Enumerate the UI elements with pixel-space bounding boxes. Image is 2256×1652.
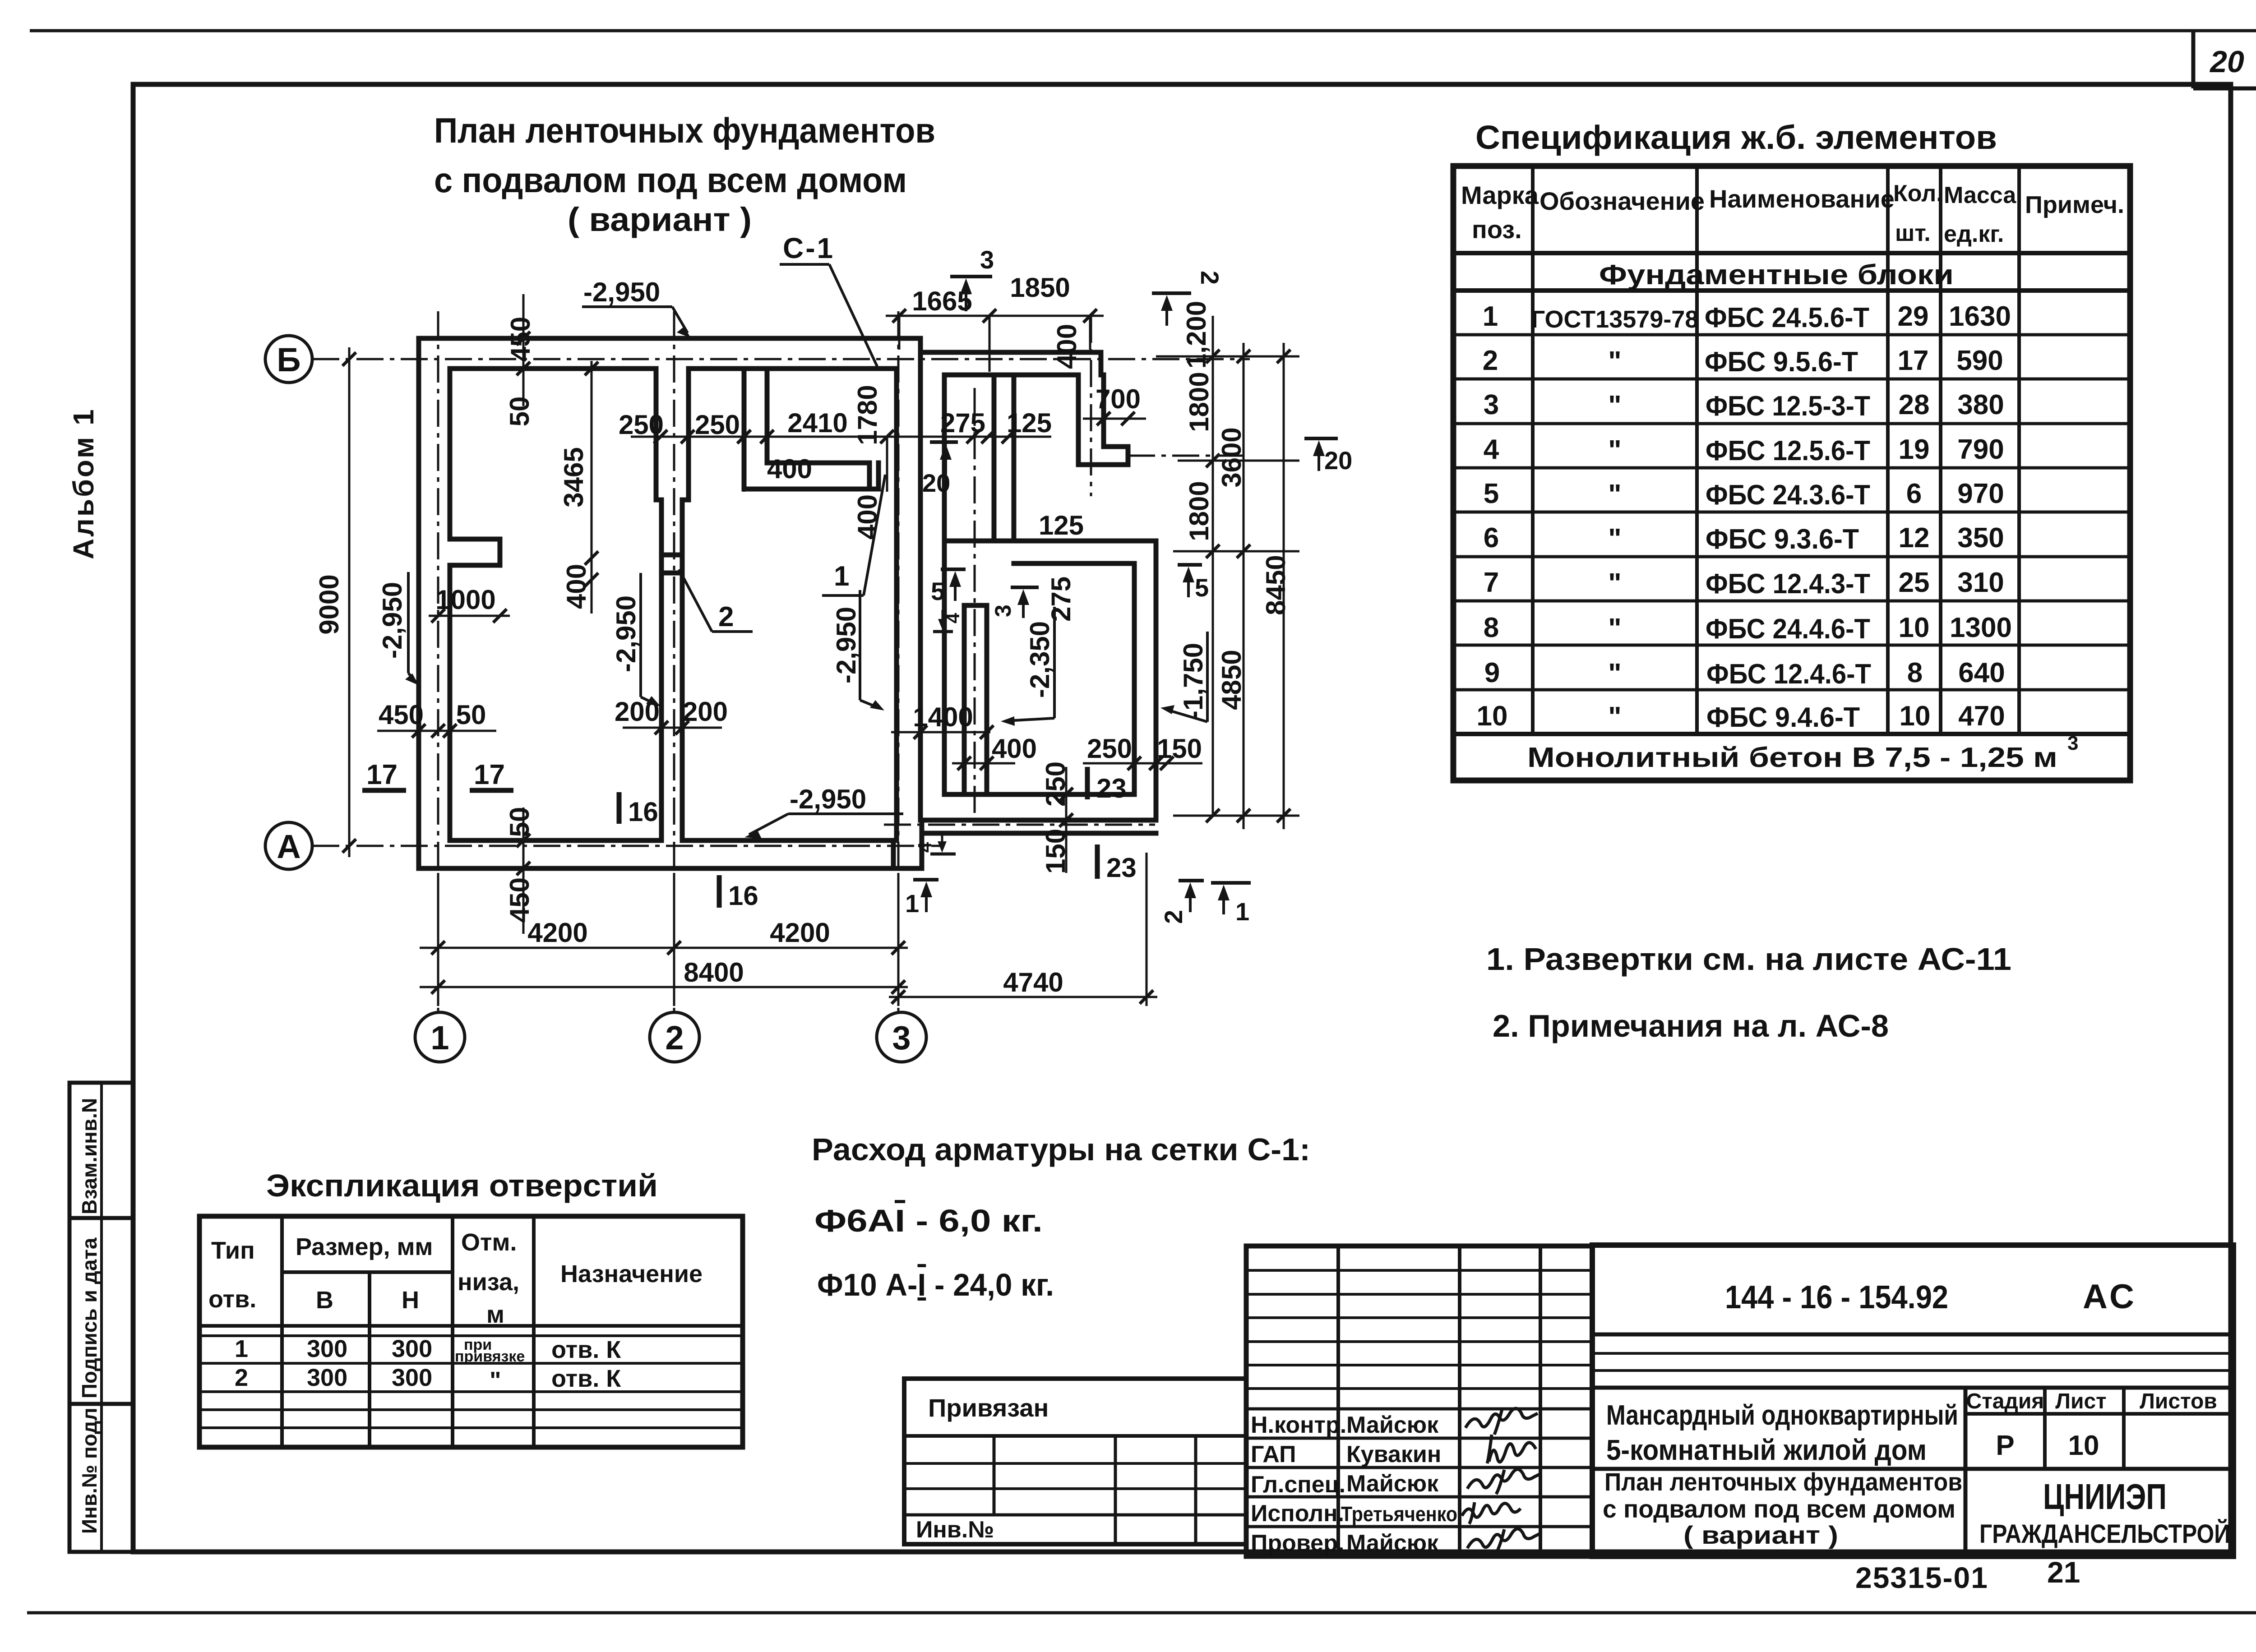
svg-text:29: 29 — [1898, 301, 1929, 332]
svg-text:Альбом 1: Альбом 1 — [67, 407, 100, 559]
svg-text:4850: 4850 — [1216, 650, 1247, 710]
annex partition east face — [1012, 375, 1017, 541]
svg-text:125: 125 — [1039, 510, 1084, 540]
axis circle 2 — [650, 1012, 699, 1062]
svg-text:144 - 16 - 154.92: 144 - 16 - 154.92 — [1725, 1279, 1948, 1315]
svg-text:Провер.: Провер. — [1251, 1530, 1344, 1556]
svg-text:275: 275 — [940, 408, 985, 438]
svg-text:": " — [1608, 346, 1621, 377]
svg-text:50: 50 — [504, 807, 535, 837]
svg-text:ГАП: ГАП — [1251, 1441, 1296, 1467]
dim line 1400 — [891, 731, 990, 734]
svg-text:Примеч.: Примеч. — [2025, 191, 2124, 218]
section mark 4 left small — [933, 610, 953, 632]
annex bottom outer second — [922, 831, 1156, 836]
svg-text:ЦНИИЭП: ЦНИИЭП — [2043, 1477, 2167, 1517]
section mark 2 bottom — [1179, 881, 1204, 912]
wall jog at axis3 — [918, 338, 923, 352]
svg-text:-2,950: -2,950 — [583, 277, 660, 307]
svg-text:23: 23 — [1106, 853, 1137, 883]
svg-text:19: 19 — [1899, 434, 1930, 465]
axis stub — [974, 388, 976, 817]
svg-text:17: 17 — [474, 759, 505, 790]
svg-text:1300: 1300 — [1950, 612, 2012, 643]
stamp row project-number bottom — [1592, 1333, 2233, 1337]
stamp stadia header bottom — [1965, 1412, 2233, 1416]
svg-text:450: 450 — [505, 317, 536, 362]
svg-text:Привязан: Привязан — [928, 1394, 1049, 1422]
svg-text:Р: Р — [1996, 1430, 2014, 1461]
section mark 4 bottom small — [930, 834, 956, 854]
explik col B-H divider — [368, 1272, 371, 1447]
explik razmer subline — [282, 1270, 453, 1274]
svg-text:Марка: Марка — [1461, 181, 1539, 209]
alcove bottom outer — [744, 487, 878, 492]
ticks vertical 250-150 — [1059, 788, 1073, 827]
svg-text:Н.контр.: Н.контр. — [1251, 1412, 1346, 1438]
right stack ext lines — [1156, 355, 1299, 358]
ticks 1000 — [431, 609, 507, 623]
left block inner step — [891, 840, 896, 868]
PLAN — [265, 232, 1352, 1062]
svg-text:1: 1 — [235, 1335, 248, 1362]
svg-text:2: 2 — [1159, 910, 1188, 924]
alcove west wall east face — [765, 369, 770, 463]
wall top outer — [419, 336, 920, 341]
svg-text:Фундаментные блоки: Фундаментные блоки — [1599, 259, 1954, 291]
svg-text:400: 400 — [992, 734, 1037, 764]
svg-text:привязке: привязке — [455, 1348, 525, 1365]
svg-text:ед.кг.: ед.кг. — [1944, 221, 2004, 247]
svg-text:590: 590 — [1956, 345, 2003, 376]
dim line top 1665-1850 — [886, 315, 1104, 317]
svg-text:Инв.№: Инв.№ — [916, 1517, 994, 1543]
svg-text:250: 250 — [1087, 734, 1132, 764]
axis A line — [312, 845, 943, 847]
svg-text:1: 1 — [430, 1019, 449, 1057]
annex middle wall bottom — [1014, 561, 1134, 566]
svg-text:1. Развертки см. на листе АС-1: 1. Развертки см. на листе АС-11 — [1486, 941, 2011, 977]
spec col line 5 — [2017, 166, 2021, 734]
svg-text:2: 2 — [1196, 271, 1224, 285]
dim line 450-50 top-left — [522, 294, 525, 406]
annex east wall east face — [1154, 541, 1159, 820]
wall left inner upper — [448, 369, 453, 539]
svg-text:-2,350: -2,350 — [1025, 621, 1055, 698]
dim line middle horizontal chain — [631, 436, 1051, 438]
L-wall foot end — [1126, 447, 1131, 465]
annex bottom-left jog — [920, 820, 925, 868]
scan top edge line — [30, 29, 2256, 32]
svg-text:ФБС 12.4.3-Т: ФБС 12.4.3-Т — [1706, 568, 1870, 600]
signatures squiggles — [1462, 1407, 1539, 1553]
svg-text:4: 4 — [942, 613, 963, 623]
svg-text:Б: Б — [277, 341, 300, 378]
svg-text:отв.: отв. — [208, 1286, 256, 1313]
svg-text:1: 1 — [905, 889, 919, 918]
pilaster east — [498, 539, 503, 565]
wall middle lower east face — [680, 500, 685, 840]
TITLE-BLOCK — [904, 1245, 2233, 1594]
svg-text:300: 300 — [392, 1364, 432, 1391]
svg-text:3: 3 — [2067, 732, 2078, 754]
explik outer border — [199, 1216, 743, 1447]
svg-text:поз.: поз. — [1472, 215, 1522, 244]
svg-text:4200: 4200 — [527, 918, 587, 948]
svg-text:400: 400 — [1052, 324, 1082, 369]
svg-text:50: 50 — [504, 397, 535, 427]
ticks bottom dims — [431, 941, 905, 955]
svg-text:20: 20 — [1324, 446, 1352, 475]
pilaster top — [450, 537, 500, 542]
annex west wall east face — [942, 375, 947, 794]
dim line 3465-400 — [591, 361, 593, 614]
svg-text:Отм.: Отм. — [461, 1229, 517, 1256]
svg-text:400: 400 — [767, 454, 812, 484]
dim line 250-150 vertical — [1065, 767, 1068, 873]
dim line 700 — [1083, 412, 1146, 425]
section mark 1 bottom-right — [1211, 883, 1251, 914]
svg-text:310: 310 — [1957, 567, 2004, 598]
svg-text:Стадия: Стадия — [1966, 1389, 2044, 1413]
section mark 3 top — [950, 277, 992, 311]
ticks 250-150 — [1128, 757, 1174, 770]
svg-text:25315-01: 25315-01 — [1855, 1561, 1988, 1594]
spec table outer border — [1453, 166, 2130, 780]
svg-text:6: 6 — [1906, 478, 1922, 509]
wall bottom inner west — [450, 838, 661, 843]
svg-text:с подвалом под всем домом: с подвалом под всем домом — [434, 160, 907, 200]
section mark 2 top — [1152, 293, 1191, 326]
svg-text:5-комнатный жилой дом: 5-комнатный жилой дом — [1606, 1434, 1927, 1466]
svg-text:Экспликация отверстий: Экспликация отверстий — [266, 1168, 658, 1203]
svg-text:2: 2 — [235, 1364, 248, 1391]
svg-text:2. Примечания на л. АС-8: 2. Примечания на л. АС-8 — [1493, 1008, 1889, 1043]
section mark 20 right — [1304, 438, 1338, 471]
stub partition west face — [962, 605, 967, 794]
svg-text:12: 12 — [1899, 522, 1930, 554]
axis circle B — [265, 336, 312, 383]
axis circle A — [265, 822, 312, 869]
dim line 400 stub — [952, 762, 1015, 765]
annex bottom inner — [944, 792, 1134, 797]
svg-text:С-1: С-1 — [783, 232, 835, 264]
wall top inner east — [689, 366, 897, 371]
hole 2 top — [661, 553, 682, 558]
svg-text:17: 17 — [366, 759, 398, 790]
svg-text:Инв.№ подл: Инв.№ подл — [78, 1407, 101, 1534]
svg-text:отв. К: отв. К — [551, 1365, 621, 1392]
svg-text:ФБС 9.3.6-Т: ФБС 9.3.6-Т — [1706, 524, 1859, 555]
stub partition east face — [985, 605, 989, 794]
svg-text:4: 4 — [914, 842, 935, 853]
main stamp box — [1592, 1245, 2233, 1556]
svg-text:1: 1 — [1483, 301, 1498, 332]
stamp drawing-name row — [1592, 1467, 2233, 1471]
wall top inner west — [450, 366, 656, 371]
mark 23 upper — [1085, 767, 1090, 799]
svg-text:шт.: шт. — [1895, 220, 1931, 246]
svg-text:8400: 8400 — [684, 957, 744, 988]
svg-text:Майсюк: Майсюк — [1346, 1412, 1439, 1438]
wall bottom inner east — [682, 838, 897, 843]
alcove west wall west face — [742, 369, 747, 489]
ticks 400 stub — [957, 757, 994, 770]
ticks middle chain — [654, 430, 1015, 443]
spec data rows — [1477, 301, 2012, 733]
dim ext bottom left — [437, 873, 439, 1006]
wall left inner lower — [448, 565, 453, 840]
stamp name row top — [1592, 1386, 2233, 1390]
svg-text:План ленточных фундаментов: План ленточных фундаментов — [434, 111, 935, 150]
svg-text:470: 470 — [1958, 701, 2005, 732]
svg-text:3600: 3600 — [1216, 427, 1247, 487]
svg-text:": " — [1608, 658, 1621, 689]
dim line 250-150 — [1083, 762, 1202, 765]
ticks 1400 — [914, 725, 994, 739]
svg-text:300: 300 — [307, 1335, 347, 1362]
L-wall west face — [1076, 375, 1081, 465]
svg-text:": " — [1608, 701, 1621, 733]
svg-text:20: 20 — [2209, 45, 2244, 79]
svg-text:Размер, мм: Размер, мм — [296, 1233, 433, 1260]
svg-text:21: 21 — [2047, 1555, 2080, 1589]
LEFT-MARGIN — [67, 407, 134, 1552]
svg-text:250: 250 — [619, 410, 664, 440]
svg-text:Н: Н — [402, 1287, 419, 1314]
dim line 4740 — [889, 996, 1157, 998]
svg-text:м: м — [486, 1301, 504, 1328]
section mark 1 bottom-left — [913, 880, 938, 912]
svg-text:": " — [490, 1367, 501, 1394]
svg-text:Листов: Листов — [2140, 1389, 2217, 1413]
axis circle 3 — [877, 1012, 926, 1062]
svg-text:ФБС 9.4.6-Т: ФБС 9.4.6-Т — [1706, 702, 1860, 733]
L-wall foot bottom — [1078, 462, 1128, 467]
mark 23 lower — [1095, 844, 1100, 879]
svg-text:3: 3 — [1484, 389, 1499, 420]
svg-text:200: 200 — [683, 697, 728, 727]
svg-text:5: 5 — [1195, 573, 1209, 602]
spec row lines — [1453, 335, 2130, 734]
svg-text:ФБС 9.5.6-Т: ФБС 9.5.6-Т — [1705, 346, 1858, 378]
svg-text:Кувакин: Кувакин — [1346, 1441, 1441, 1467]
svg-text:1000: 1000 — [435, 585, 495, 615]
svg-text:250: 250 — [1040, 761, 1071, 807]
svg-text:450: 450 — [379, 700, 424, 730]
svg-text:700: 700 — [1096, 384, 1141, 414]
svg-text:( вариант ): ( вариант ) — [568, 201, 752, 238]
explik header bottom double — [199, 1324, 743, 1328]
explik col H end — [451, 1216, 454, 1447]
svg-text:ФБС 12.5-3-Т: ФБС 12.5-3-Т — [1706, 391, 1870, 422]
svg-text:125: 125 — [1007, 408, 1052, 438]
sig text rows — [1246, 1409, 1592, 1527]
ticks 200-200 — [655, 721, 689, 734]
axis porch vertical — [1090, 316, 1092, 496]
REBAR-TEXT — [812, 1132, 1310, 1302]
svg-text:Ф6АI - 6,0 кг.: Ф6АI - 6,0 кг. — [814, 1203, 1043, 1238]
section mark 5 left — [941, 569, 966, 601]
svg-text:300: 300 — [392, 1335, 432, 1362]
svg-text:350: 350 — [1957, 522, 2004, 554]
svg-text:16: 16 — [628, 797, 658, 827]
dim line bottom 4200-4200 — [420, 947, 908, 949]
svg-text:28: 28 — [1899, 389, 1930, 420]
NOTES — [1486, 941, 2011, 1043]
svg-text:": " — [1608, 523, 1621, 554]
svg-text:1: 1 — [834, 561, 849, 592]
EXPLIC-TABLE — [199, 1168, 743, 1447]
wall middle jog east — [682, 498, 689, 503]
hole 1 west edge — [867, 463, 872, 489]
annex partition west face — [992, 375, 997, 541]
annex bottom outer — [922, 818, 1156, 823]
ticks 3465-400 — [585, 362, 598, 586]
spec col line 2 — [1695, 166, 1699, 734]
sig col 2 — [1458, 1246, 1461, 1556]
svg-text:Масса: Масса — [1944, 182, 2016, 208]
spec subheader row line — [1453, 288, 2130, 293]
wall middle jog west — [656, 498, 661, 503]
alcove bottom inner — [767, 461, 869, 466]
dim line 1000 — [429, 615, 510, 617]
svg-text:ФБС 24.4.6-Т: ФБС 24.4.6-Т — [1706, 614, 1870, 645]
svg-text:150: 150 — [1040, 829, 1071, 874]
svg-text:50: 50 — [456, 700, 486, 730]
svg-text:10: 10 — [1900, 701, 1931, 732]
svg-text:": " — [1608, 613, 1621, 644]
wall annex top outer — [920, 350, 1101, 355]
spec col line 1 — [1531, 166, 1535, 734]
spec col line 3 — [1886, 166, 1890, 734]
svg-text:2: 2 — [665, 1019, 684, 1057]
svg-text:Гл.спец.: Гл.спец. — [1251, 1472, 1345, 1498]
wall bottom outer — [419, 866, 922, 871]
svg-text:( вариант ): ( вариант ) — [1683, 1521, 1838, 1549]
wall middle upper west face — [654, 369, 659, 500]
section mark 5 right — [1178, 565, 1202, 597]
axis porch horizontal — [1128, 455, 1250, 457]
right stack line B — [1243, 343, 1245, 829]
stamp thin rows — [1592, 1352, 2233, 1355]
svg-text:1: 1 — [1235, 897, 1249, 926]
svg-text:ГРАЖДАНСЕЛЬСТРОЙ: ГРАЖДАНСЕЛЬСТРОЙ — [1979, 1519, 2230, 1549]
svg-text:-2,950: -2,950 — [831, 607, 861, 683]
hole 2 bottom — [661, 571, 682, 576]
axis3 wall west face — [894, 369, 899, 840]
svg-text:Подпись и дата: Подпись и дата — [78, 1237, 101, 1398]
svg-text:300: 300 — [307, 1364, 347, 1391]
axis B line — [312, 358, 1250, 360]
spec header bottom — [1453, 251, 2130, 255]
svg-text:Третьяченко: Третьяченко — [1341, 1502, 1457, 1526]
scan bottom edge line — [27, 1611, 2256, 1615]
svg-text:": " — [1608, 479, 1621, 510]
svg-text:400: 400 — [561, 564, 592, 609]
dim line 9000 — [348, 347, 351, 857]
MAIN-TITLE — [434, 111, 935, 238]
svg-text:": " — [1608, 390, 1621, 421]
svg-text:с подвалом под всем домом: с подвалом под всем домом — [1603, 1495, 1956, 1523]
annex top inner — [944, 373, 1078, 378]
svg-text:Взам.инв.N: Взам.инв.N — [78, 1098, 101, 1214]
svg-text:1,200: 1,200 — [1181, 301, 1211, 369]
axis 2 line — [673, 311, 675, 1014]
svg-text:10: 10 — [2068, 1430, 2099, 1461]
svg-text:7: 7 — [1484, 567, 1499, 598]
svg-text:": " — [1608, 435, 1621, 466]
stub partition cap — [964, 603, 987, 608]
spec col line 4 — [1939, 166, 1942, 734]
ticks right stack B — [1237, 350, 1250, 822]
svg-text:4: 4 — [1484, 434, 1499, 465]
axis 3 line — [897, 311, 900, 1014]
dim line bottom 8400 — [420, 986, 908, 988]
svg-text:Спецификация ж.б. элементов: Спецификация ж.б. элементов — [1475, 119, 1997, 156]
svg-text:ФБС 12.5.6-Т: ФБС 12.5.6-Т — [1706, 435, 1870, 466]
svg-text:1800: 1800 — [1184, 372, 1214, 432]
explik row lines — [199, 1362, 743, 1365]
svg-text:10: 10 — [1477, 701, 1508, 732]
wall left outer — [416, 338, 421, 868]
svg-text:380: 380 — [1957, 389, 2004, 420]
hole 1 east edge — [876, 463, 881, 489]
svg-text:2410: 2410 — [787, 408, 847, 438]
svg-text:20: 20 — [922, 469, 950, 497]
stamp col listov — [2122, 1388, 2126, 1469]
svg-text:6: 6 — [1484, 522, 1499, 554]
svg-text:8450: 8450 — [1261, 555, 1291, 615]
svg-text:4740: 4740 — [1003, 967, 1063, 997]
svg-text:Лист: Лист — [2055, 1389, 2106, 1413]
annex middle wall top — [944, 539, 1156, 544]
svg-text:Майсюк: Майсюк — [1346, 1530, 1439, 1556]
svg-text:ФБС 12.4.6-Т: ФБС 12.4.6-Т — [1706, 659, 1871, 690]
axis circle 1 — [415, 1012, 465, 1062]
dim line 450-50 bottom-left — [522, 808, 525, 934]
right stack line A — [1212, 316, 1214, 816]
svg-text:970: 970 — [1957, 478, 2004, 509]
svg-text:23: 23 — [1096, 773, 1127, 803]
svg-text:-1,750: -1,750 — [1178, 643, 1208, 720]
svg-text:А: А — [277, 828, 300, 865]
privyazan cols — [993, 1436, 996, 1515]
sig col 1 — [1336, 1246, 1340, 1556]
svg-text:9: 9 — [1484, 657, 1500, 688]
svg-text:640: 640 — [1958, 657, 2005, 688]
svg-text:План ленточных фундаментов: План ленточных фундаментов — [1604, 1467, 1962, 1496]
section mark 3 annex — [1011, 587, 1039, 618]
svg-text:17: 17 — [1898, 345, 1929, 376]
privyazan header bottom — [904, 1434, 1246, 1438]
sheet number box — [2191, 31, 2196, 88]
stamp col stadia — [1964, 1388, 1968, 1556]
svg-text:Мансардный одноквартирный: Мансардный одноквартирный — [1606, 1400, 1958, 1431]
signature table outer — [1246, 1246, 1592, 1556]
svg-text:10: 10 — [1899, 612, 1930, 643]
svg-text:150: 150 — [1157, 734, 1202, 764]
ticks 450-50 bottom-left — [517, 834, 530, 875]
ticks top 1665-1850 — [892, 309, 1097, 323]
svg-text:ФБС 24.3.6-Т: ФБС 24.3.6-Т — [1706, 480, 1870, 511]
inventory strip table — [69, 1083, 134, 1552]
svg-text:-2,950: -2,950 — [790, 784, 866, 814]
svg-text:": " — [1608, 568, 1621, 599]
svg-text:1850: 1850 — [1010, 272, 1070, 303]
privyazan box — [904, 1379, 1246, 1544]
svg-text:3465: 3465 — [559, 447, 589, 507]
